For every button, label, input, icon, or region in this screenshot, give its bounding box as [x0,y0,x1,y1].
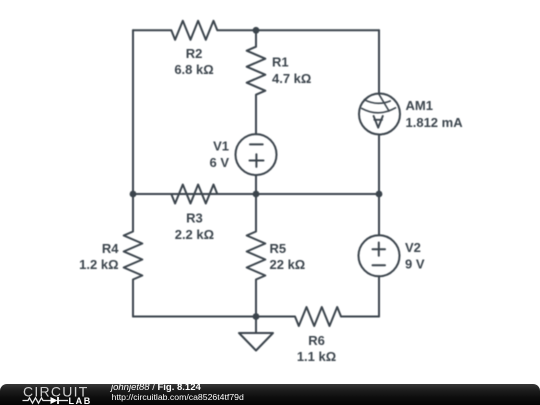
wire V1 to middle rail [255,175,257,194]
wire top rail right of R2 junction to right rail [256,29,379,31]
wire right rail top to AM1 [378,30,380,93]
svg-text:1.812 mA: 1.812 mA [406,115,464,130]
svg-text:1.2 kΩ: 1.2 kΩ [79,257,118,272]
resistor R3 [133,185,256,204]
voltage source V1 [236,134,277,175]
wire top-left rail [132,30,134,194]
footer bar [0,384,540,405]
resistor R1 [247,30,266,134]
ammeter AM1 [359,94,400,135]
footer line 1 [111,382,201,393]
svg-text:6.8 kΩ: 6.8 kΩ [174,62,213,77]
svg-text:V2: V2 [405,240,421,255]
footer line 2 [112,392,244,402]
svg-text:AM1: AM1 [406,98,433,113]
wire middle rail to V2 [378,194,380,235]
svg-text:2.2 kΩ: 2.2 kΩ [175,227,214,242]
resistor R4 [124,194,143,317]
middle rail [133,193,379,195]
svg-text:R3: R3 [186,211,203,226]
svg-text:1.1 kΩ: 1.1 kΩ [297,349,336,364]
svg-text:R1: R1 [272,55,289,70]
wire bottom-left rail [133,316,256,318]
svg-text:LAB: LAB [69,396,92,405]
node junction dots [253,27,260,34]
svg-text:R6: R6 [308,333,325,348]
svg-text:R5: R5 [270,241,287,256]
svg-text:22 kΩ: 22 kΩ [270,257,306,272]
resistor R5 [247,194,266,317]
voltage source V2 [359,235,400,276]
wire V2 to bottom rail [378,276,380,316]
resistor R6 [256,307,379,326]
svg-text:R2: R2 [186,46,203,61]
svg-text:4.7 kΩ: 4.7 kΩ [272,71,311,86]
CircuitLab logo [0,384,110,405]
svg-text:R4: R4 [102,241,119,256]
svg-text:9 V: 9 V [405,257,425,272]
svg-text:6 V: 6 V [209,155,229,170]
ground [239,317,273,351]
wire AM1 to middle rail [378,135,380,195]
resistor R2 [133,21,256,40]
svg-text:V1: V1 [213,139,229,154]
